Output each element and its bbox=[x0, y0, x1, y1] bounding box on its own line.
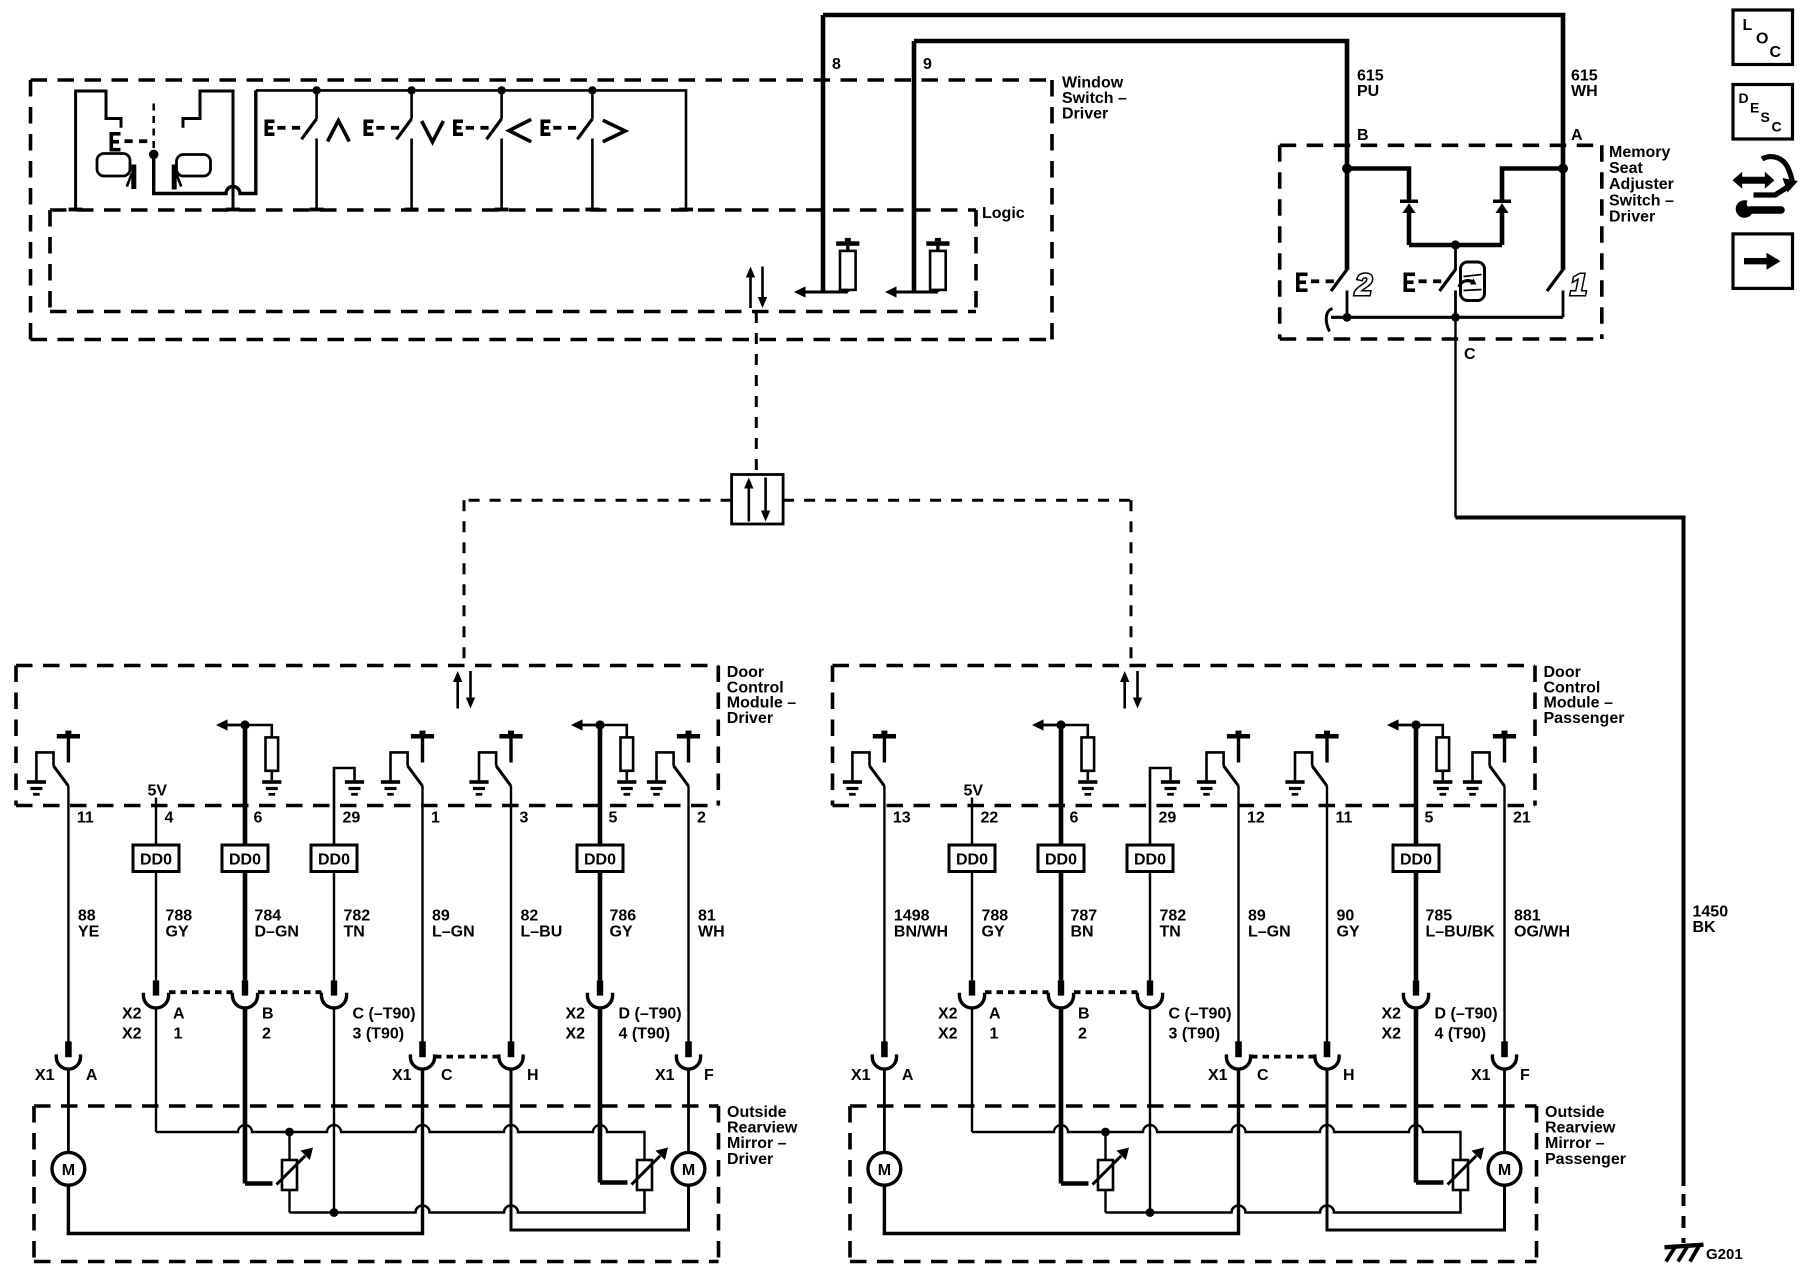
motor M2 feed bbox=[511, 1069, 689, 1230]
svg-text:5V: 5V bbox=[964, 783, 984, 800]
label wire 89 L–GN bbox=[1248, 908, 1291, 941]
svg-text:11: 11 bbox=[1336, 810, 1353, 827]
svg-text:Memory: Memory bbox=[1609, 144, 1670, 161]
svg-text:X1: X1 bbox=[851, 1067, 871, 1084]
wire C drop bbox=[1454, 317, 1456, 517]
svg-text:X2: X2 bbox=[1382, 1026, 1402, 1043]
switch S4 actuator E bbox=[541, 120, 577, 137]
wire bbox=[333, 872, 335, 981]
label wire 1498 BN/WH bbox=[894, 908, 948, 941]
svg-text:Outside: Outside bbox=[1545, 1104, 1605, 1121]
svg-text:X2: X2 bbox=[566, 1006, 586, 1023]
wire pin 11 bbox=[1326, 786, 1328, 1042]
svg-text:82: 82 bbox=[521, 908, 539, 925]
motor M1 bbox=[868, 1152, 901, 1185]
connector X2 pin 29 bbox=[321, 980, 346, 1008]
svg-text:Switch –: Switch – bbox=[1609, 192, 1674, 209]
label 615 WH bbox=[1571, 68, 1598, 101]
wire D down bbox=[598, 1008, 603, 1183]
wire bbox=[971, 872, 973, 981]
svg-text:X1: X1 bbox=[35, 1067, 55, 1084]
wire bbox=[155, 872, 157, 981]
terminal foot bbox=[405, 208, 419, 212]
svg-text:Rearview: Rearview bbox=[1545, 1120, 1616, 1137]
svg-text:1: 1 bbox=[990, 1026, 999, 1043]
svg-text:21: 21 bbox=[1513, 810, 1531, 827]
label 8 bbox=[832, 56, 841, 73]
label door control module passenger bbox=[1544, 664, 1625, 727]
svg-text:29: 29 bbox=[343, 810, 361, 827]
svg-text:X2: X2 bbox=[566, 1026, 586, 1043]
label wire 88 YE bbox=[78, 908, 100, 941]
switch S2 actuator E bbox=[364, 120, 400, 137]
label pin 29 bbox=[1159, 810, 1177, 827]
svg-text:TN: TN bbox=[344, 924, 365, 941]
memory pivot hook bbox=[1326, 309, 1332, 332]
svg-text:788: 788 bbox=[166, 908, 193, 925]
inline connector DD0 pin 29 bbox=[311, 845, 357, 872]
motor M2 feed bbox=[1327, 1069, 1505, 1230]
connector X2 pin 5 bbox=[587, 980, 612, 1008]
data link arrows mid bbox=[744, 478, 770, 522]
memory switch 1 bbox=[1547, 270, 1563, 318]
label pin 5 bbox=[1425, 810, 1434, 827]
terminal foot bbox=[226, 208, 240, 212]
label pin 11 bbox=[1336, 810, 1353, 827]
wire B down bbox=[243, 1008, 248, 1184]
resistor drive pin 6 bbox=[216, 719, 281, 795]
connector X2 pin 5 bbox=[1403, 980, 1428, 1008]
svg-text:S: S bbox=[1761, 109, 1770, 125]
wire pin 5 bbox=[598, 725, 603, 845]
wire pin 2 bbox=[687, 786, 689, 1042]
svg-text:OG/WH: OG/WH bbox=[1514, 924, 1570, 941]
svg-text:C (–T90): C (–T90) bbox=[353, 1006, 416, 1023]
svg-text:Logic: Logic bbox=[982, 205, 1025, 222]
data link arrows passenger bbox=[1120, 671, 1142, 709]
connector X1 col 4 bbox=[1226, 1041, 1250, 1069]
wire 5V pin 4 bbox=[155, 798, 157, 846]
label pin 4 bbox=[165, 810, 174, 827]
svg-text:X1: X1 bbox=[1208, 1067, 1228, 1084]
terminal foot bbox=[585, 208, 599, 212]
svg-text:D: D bbox=[1739, 90, 1749, 106]
ground trace pin 29 bbox=[334, 768, 364, 845]
label wire 89 L–GN bbox=[432, 908, 475, 941]
potentiometer P1 bbox=[1098, 1132, 1113, 1213]
label pin 5 bbox=[609, 810, 618, 827]
svg-text:M: M bbox=[62, 1162, 75, 1179]
wire 1450 dashed tail bbox=[1682, 1194, 1686, 1243]
svg-text:L–BU: L–BU bbox=[521, 924, 563, 941]
logic box bbox=[50, 210, 976, 312]
mirror bus lower bbox=[1106, 1190, 1461, 1217]
svg-text:A: A bbox=[173, 1006, 185, 1023]
svg-text:4 (T90): 4 (T90) bbox=[619, 1026, 671, 1043]
svg-text:GY: GY bbox=[1337, 924, 1360, 941]
svg-text:M: M bbox=[878, 1162, 891, 1179]
svg-text:Outside: Outside bbox=[727, 1104, 787, 1121]
svg-text:DD0: DD0 bbox=[1134, 852, 1166, 869]
svg-text:3 (T90): 3 (T90) bbox=[1169, 1026, 1221, 1043]
door control module passenger box bbox=[833, 666, 1536, 806]
svg-text:615: 615 bbox=[1571, 68, 1598, 85]
connector X2 pin 29 bbox=[1137, 980, 1162, 1008]
switch S3 actuator E bbox=[453, 120, 489, 137]
svg-text:3: 3 bbox=[520, 810, 529, 827]
wire pin 1 bbox=[421, 786, 423, 1042]
svg-text:4: 4 bbox=[165, 810, 174, 827]
svg-text:6: 6 bbox=[1070, 810, 1079, 827]
ground G201 bbox=[1665, 1245, 1704, 1262]
svg-text:DD0: DD0 bbox=[956, 852, 988, 869]
svg-text:89: 89 bbox=[432, 908, 450, 925]
svg-text:B: B bbox=[1357, 127, 1369, 144]
label pin 2 bbox=[697, 810, 706, 827]
svg-text:2: 2 bbox=[1354, 267, 1372, 302]
svg-text:22: 22 bbox=[981, 810, 999, 827]
jumper X1 dashed bbox=[435, 1055, 499, 1059]
icon box arrow bbox=[1733, 234, 1793, 289]
label logic bbox=[982, 205, 1025, 222]
svg-text:11: 11 bbox=[77, 810, 94, 827]
svg-text:GY: GY bbox=[166, 924, 189, 941]
wire 615 PU second run bbox=[914, 41, 1347, 270]
label wire 788 GY bbox=[982, 908, 1009, 941]
jumper X2 dashed bbox=[169, 990, 322, 994]
label pin 6 bbox=[254, 810, 263, 827]
svg-text:TN: TN bbox=[1160, 924, 1181, 941]
svg-text:DD0: DD0 bbox=[140, 852, 172, 869]
icon box DESC bbox=[1733, 85, 1793, 140]
label pin 1 bbox=[431, 810, 440, 827]
label pin 12 bbox=[1247, 810, 1265, 827]
label X1 row bbox=[35, 1067, 714, 1084]
junction bus 4 bbox=[588, 86, 596, 94]
connector X1 col 5 bbox=[499, 1041, 523, 1069]
svg-text:Driver: Driver bbox=[1609, 208, 1655, 225]
svg-text:GY: GY bbox=[982, 924, 1005, 941]
svg-text:B: B bbox=[262, 1006, 274, 1023]
wiper feed P2 bbox=[600, 1148, 668, 1185]
wiper feed P2 bbox=[1416, 1148, 1484, 1185]
label wire 785 L–BU/BK bbox=[1426, 908, 1496, 941]
label wire 787 BN bbox=[1071, 908, 1098, 941]
svg-text:X2: X2 bbox=[122, 1006, 142, 1023]
label wire 881 OG/WH bbox=[1514, 908, 1570, 941]
data link arrows logic bbox=[746, 267, 767, 309]
junction select bbox=[149, 150, 159, 160]
diode D2 bbox=[1493, 200, 1511, 246]
resistor drive pin 6 bbox=[1032, 719, 1097, 795]
label wire 784 D–GN bbox=[255, 908, 299, 941]
svg-text:E: E bbox=[1750, 100, 1759, 116]
svg-text:5V: 5V bbox=[148, 783, 168, 800]
label 615 PU bbox=[1357, 68, 1384, 101]
svg-text:Passenger: Passenger bbox=[1545, 1151, 1626, 1168]
label wire 786 GY bbox=[610, 908, 637, 941]
memory switch 3 bbox=[1440, 270, 1456, 318]
svg-text:X2: X2 bbox=[122, 1026, 142, 1043]
mirror select left contact bbox=[76, 91, 121, 210]
switch to ground pin 3 bbox=[469, 731, 522, 796]
connector X1 col 7 bbox=[676, 1041, 700, 1069]
svg-text:H: H bbox=[527, 1067, 539, 1084]
svg-text:8: 8 bbox=[832, 56, 841, 73]
svg-text:BN/WH: BN/WH bbox=[894, 924, 948, 941]
svg-text:L: L bbox=[1743, 17, 1753, 34]
outside rearview mirror passenger box bbox=[850, 1106, 1537, 1262]
svg-text:H: H bbox=[1343, 1067, 1355, 1084]
svg-text:1: 1 bbox=[1570, 267, 1587, 302]
mirror icon left bbox=[97, 154, 134, 190]
svg-text:1: 1 bbox=[174, 1026, 183, 1043]
mirror bus upper bbox=[156, 1125, 645, 1160]
svg-text:F: F bbox=[1520, 1067, 1530, 1084]
svg-text:YE: YE bbox=[78, 924, 100, 941]
label wire 788 GY bbox=[166, 908, 193, 941]
diode D1 bbox=[1400, 200, 1418, 246]
svg-text:786: 786 bbox=[610, 908, 637, 925]
connector X2 pin 4 bbox=[143, 980, 168, 1008]
svg-text:DD0: DD0 bbox=[318, 852, 350, 869]
terminal foot bbox=[495, 208, 509, 212]
wire motor2 top bbox=[687, 1069, 690, 1152]
label digit 1 bbox=[1570, 267, 1587, 302]
wire B down bbox=[1059, 1008, 1064, 1184]
window switch S4 bbox=[577, 90, 592, 209]
wire bbox=[1149, 872, 1151, 981]
window switch S2 bbox=[397, 90, 412, 209]
connector X1 col 4 bbox=[410, 1041, 434, 1069]
switch to ground pin 21 bbox=[1463, 731, 1516, 796]
label pin 21 bbox=[1513, 810, 1531, 827]
inline connector DD0 pin 4 bbox=[133, 845, 179, 872]
label wire 81 WH bbox=[698, 908, 725, 941]
wire C3 down bbox=[333, 1008, 335, 1213]
window switch bus bbox=[256, 90, 686, 209]
door control module driver box bbox=[16, 666, 718, 806]
wire 788 down bbox=[155, 1008, 157, 1132]
wire 9 bbox=[912, 41, 917, 292]
svg-text:D (–T90): D (–T90) bbox=[619, 1006, 682, 1023]
svg-text:90: 90 bbox=[1337, 908, 1355, 925]
svg-text:788: 788 bbox=[982, 908, 1009, 925]
svg-text:9: 9 bbox=[923, 56, 932, 73]
svg-text:615: 615 bbox=[1357, 68, 1384, 85]
svg-text:C: C bbox=[1257, 1067, 1269, 1084]
svg-text:A: A bbox=[86, 1067, 98, 1084]
svg-text:D–GN: D–GN bbox=[255, 924, 299, 941]
connector X1 col 7 bbox=[1492, 1041, 1516, 1069]
wire pin 12 bbox=[1237, 786, 1239, 1042]
memory switch 3 actuator E bbox=[1404, 273, 1442, 293]
wire 788 down bbox=[971, 1008, 973, 1132]
junction bus 2 bbox=[407, 86, 415, 94]
label wire 82 L–BU bbox=[521, 908, 563, 941]
wire bbox=[598, 872, 603, 981]
jumper X1 dashed bbox=[1251, 1055, 1315, 1059]
inline connector DD0 pin 6 bbox=[222, 845, 268, 872]
svg-text:L–BU/BK: L–BU/BK bbox=[1426, 924, 1496, 941]
svg-text:B: B bbox=[1078, 1006, 1090, 1023]
mirror bus lower bbox=[290, 1190, 645, 1217]
svg-text:M: M bbox=[1498, 1162, 1511, 1179]
mirror icon right bbox=[174, 155, 210, 190]
svg-text:C: C bbox=[1464, 346, 1476, 363]
svg-text:C (–T90): C (–T90) bbox=[1169, 1006, 1232, 1023]
label window switch driver bbox=[1062, 75, 1127, 123]
chevron right bbox=[603, 120, 625, 142]
svg-text:WH: WH bbox=[698, 924, 725, 941]
wire C3 down bbox=[1149, 1008, 1151, 1213]
switch S1 actuator E bbox=[265, 120, 301, 137]
svg-text:DD0: DD0 bbox=[1045, 852, 1077, 869]
serial data dashed right bbox=[783, 500, 1131, 666]
svg-text:29: 29 bbox=[1159, 810, 1177, 827]
svg-text:881: 881 bbox=[1514, 908, 1541, 925]
motor M2 bbox=[672, 1152, 705, 1185]
svg-text:L–GN: L–GN bbox=[1248, 924, 1291, 941]
svg-text:BK: BK bbox=[1693, 919, 1717, 936]
resistor logic bbox=[926, 238, 949, 290]
wire pin 11 bbox=[67, 786, 69, 1042]
connector X2 pin 6 bbox=[1048, 980, 1073, 1008]
svg-text:X1: X1 bbox=[1471, 1067, 1491, 1084]
svg-text:1: 1 bbox=[431, 810, 440, 827]
svg-text:2: 2 bbox=[697, 810, 706, 827]
connector X1 col 0 bbox=[872, 1041, 896, 1069]
wire pin 5 bbox=[1414, 725, 1419, 845]
inline connector DD0 pin 29 bbox=[1127, 845, 1173, 872]
motor M1 return bbox=[884, 1069, 1238, 1233]
window switch driver box bbox=[31, 80, 1053, 340]
connector X2 pin 22 bbox=[959, 980, 984, 1008]
wire 615 WH top run bbox=[823, 15, 1563, 270]
memory bus right bbox=[1502, 164, 1568, 200]
data link arrows driver bbox=[453, 671, 475, 709]
svg-text:Mirror –: Mirror – bbox=[1545, 1135, 1605, 1152]
svg-text:Window: Window bbox=[1062, 75, 1124, 92]
svg-text:Adjuster: Adjuster bbox=[1609, 176, 1674, 193]
wire pin 6 bbox=[243, 725, 248, 845]
icon component view bbox=[1733, 157, 1799, 218]
chevron left bbox=[509, 119, 531, 141]
svg-text:C: C bbox=[441, 1067, 453, 1084]
mirror bus upper bbox=[972, 1125, 1461, 1160]
icon box LOC bbox=[1733, 10, 1793, 65]
mirror select dashed stem bbox=[152, 104, 155, 151]
wire arrow out bbox=[794, 286, 848, 297]
svg-text:X2: X2 bbox=[938, 1006, 958, 1023]
svg-text:L–GN: L–GN bbox=[432, 924, 475, 941]
svg-text:784: 784 bbox=[255, 908, 282, 925]
label outside rearview mirror passenger bbox=[1545, 1104, 1626, 1168]
terminal foot bbox=[69, 208, 83, 212]
label B bbox=[1357, 127, 1369, 144]
window switch S3 bbox=[487, 90, 502, 209]
wire motor1 top bbox=[883, 1069, 886, 1152]
svg-text:F: F bbox=[704, 1067, 714, 1084]
label door control module driver bbox=[727, 664, 796, 727]
memory seat adjuster box bbox=[1280, 145, 1602, 339]
svg-text:G201: G201 bbox=[1706, 1246, 1743, 1263]
wire motor2 top bbox=[1503, 1069, 1506, 1152]
svg-text:782: 782 bbox=[1160, 908, 1187, 925]
svg-text:M: M bbox=[682, 1162, 695, 1179]
serial data connector box bbox=[732, 475, 784, 525]
potentiometer P2 bbox=[637, 1160, 652, 1190]
chevron up bbox=[328, 121, 350, 142]
svg-text:3 (T90): 3 (T90) bbox=[353, 1026, 405, 1043]
terminal foot bbox=[679, 208, 693, 212]
svg-text:5: 5 bbox=[1425, 810, 1434, 827]
svg-text:C: C bbox=[1772, 119, 1782, 135]
svg-text:BN: BN bbox=[1071, 924, 1094, 941]
svg-text:Passenger: Passenger bbox=[1544, 710, 1625, 727]
label wire 782 TN bbox=[344, 908, 371, 941]
junction bus 3 bbox=[497, 86, 505, 94]
svg-text:X1: X1 bbox=[392, 1067, 412, 1084]
memory switch 2 actuator E bbox=[1296, 273, 1334, 293]
label pin 6 bbox=[1070, 810, 1079, 827]
svg-text:2: 2 bbox=[1078, 1026, 1087, 1043]
wire bbox=[1059, 872, 1064, 981]
svg-text:1450: 1450 bbox=[1693, 904, 1729, 921]
svg-text:88: 88 bbox=[78, 908, 96, 925]
svg-text:Seat: Seat bbox=[1609, 160, 1643, 177]
svg-text:WH: WH bbox=[1571, 83, 1598, 100]
motor M2 bbox=[1488, 1152, 1521, 1185]
label wire 782 TN bbox=[1160, 908, 1187, 941]
resistor drive pin 5 bbox=[571, 719, 636, 795]
inline connector DD0 pin 22 bbox=[949, 845, 995, 872]
mirror select common wire bbox=[154, 90, 256, 193]
svg-text:PU: PU bbox=[1357, 83, 1379, 100]
wire motor1 top bbox=[67, 1069, 70, 1152]
svg-text:89: 89 bbox=[1248, 908, 1266, 925]
label X2 rows bbox=[122, 1006, 682, 1043]
label pin 13 bbox=[893, 810, 911, 827]
label X2 rows bbox=[938, 1006, 1498, 1043]
memory switch 2 bbox=[1331, 270, 1347, 318]
svg-text:Driver: Driver bbox=[1062, 106, 1108, 123]
motor M1 bbox=[52, 1152, 85, 1185]
svg-text:4 (T90): 4 (T90) bbox=[1435, 1026, 1487, 1043]
memory center bus bbox=[1409, 240, 1502, 270]
serial data dashed wire bbox=[755, 312, 758, 474]
svg-text:GY: GY bbox=[610, 924, 633, 941]
svg-text:782: 782 bbox=[344, 908, 371, 925]
switch to ground pin 2 bbox=[647, 731, 700, 796]
motor M1 return bbox=[68, 1069, 422, 1233]
serial data dashed left bbox=[464, 500, 732, 666]
svg-text:D (–T90): D (–T90) bbox=[1435, 1006, 1498, 1023]
wire pin 13 bbox=[883, 786, 885, 1042]
svg-text:787: 787 bbox=[1071, 908, 1098, 925]
terminal foot bbox=[310, 208, 324, 212]
svg-text:X2: X2 bbox=[938, 1026, 958, 1043]
jumper X2 dashed bbox=[985, 990, 1138, 994]
svg-text:785: 785 bbox=[1426, 908, 1453, 925]
label pin 22 bbox=[981, 810, 999, 827]
connector X2 pin 6 bbox=[232, 980, 257, 1008]
svg-text:X2: X2 bbox=[1382, 1006, 1402, 1023]
wire D down bbox=[1414, 1008, 1419, 1183]
svg-text:Rearview: Rearview bbox=[727, 1120, 798, 1137]
outside rearview mirror driver box bbox=[34, 1106, 719, 1262]
potentiometer P1 bbox=[282, 1132, 297, 1213]
